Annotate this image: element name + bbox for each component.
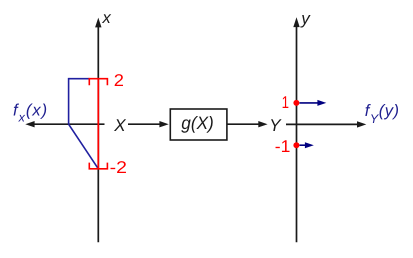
red dot at Y=-1 — [293, 142, 299, 148]
pdf of X: diagonal (blue) — [69, 124, 99, 169]
svg-text:-2: -2 — [110, 158, 127, 177]
svg-text:-1: -1 — [275, 137, 291, 156]
g(X) box — [170, 109, 227, 140]
svg-text:g(X): g(X) — [181, 113, 214, 133]
red bracket at -2 — [89, 163, 107, 169]
pmf arrow at Y=1 (blue) — [300, 100, 327, 106]
red dot at Y=1 — [293, 100, 299, 106]
red bracket at +2 — [89, 79, 107, 86]
svg-text:2: 2 — [114, 71, 124, 90]
right horizontal axis f_Y(y) direction — [286, 121, 366, 127]
arrow box to Y — [227, 121, 268, 127]
svg-text:fY(y): fY(y) — [365, 102, 400, 126]
svg-text:x: x — [102, 9, 112, 27]
svg-text:1: 1 — [282, 93, 289, 112]
svg-text:Y: Y — [269, 116, 282, 135]
pdf of X: top cap (blue) — [69, 78, 90, 80]
svg-text:fx(x): fx(x) — [13, 102, 48, 125]
red vertical segment on axis from 2 to -2 — [97, 79, 99, 169]
pdf of X: left vertical (blue) — [68, 78, 70, 124]
left horizontal axis f_x(x) direction — [25, 121, 104, 127]
pmf arrow at Y=-1 (blue) — [300, 142, 314, 148]
arrow X to box — [128, 121, 169, 127]
left x-axis (vertical) — [95, 18, 101, 243]
svg-text:X: X — [113, 116, 126, 135]
right y-axis (vertical) — [293, 17, 299, 242]
svg-text:y: y — [300, 9, 311, 28]
